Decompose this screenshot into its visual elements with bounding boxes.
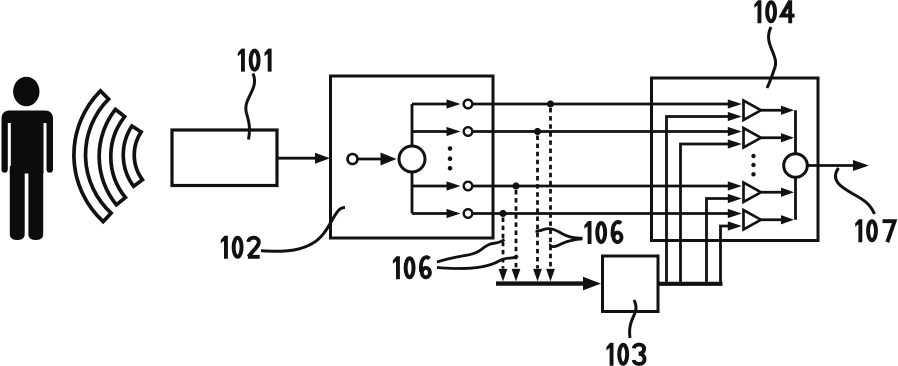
label 104	[754, 0, 794, 23]
splitter vertical bus	[411, 104, 414, 214]
combiner vertical bus	[794, 110, 797, 220]
amplifier triangle 2	[744, 128, 762, 147]
amplifier triangle 3	[744, 183, 762, 202]
label 103	[606, 343, 644, 366]
port circle ch1	[464, 100, 473, 109]
ellipsis dots in 102	[448, 146, 453, 170]
wire: output 107	[807, 164, 853, 167]
amplifier triangle 4	[744, 210, 762, 229]
input port circle	[348, 154, 358, 164]
sound wave arc 1 (outer)	[74, 91, 111, 222]
amp 2 output wire	[761, 136, 782, 139]
junction dot tap 4	[547, 100, 554, 107]
leader 104	[767, 27, 776, 88]
label 101	[238, 49, 272, 72]
box 103 (controller)	[603, 256, 659, 312]
ellipsis dots in 104	[751, 154, 755, 177]
dashed wire 106-4	[549, 108, 552, 269]
amplifier triangle 1	[744, 101, 762, 120]
dashed wire 106-3	[536, 136, 539, 269]
wire ch3 to box 104	[472, 185, 729, 188]
branch wire ch1	[412, 103, 447, 106]
wire ch1 to box 104	[472, 103, 729, 106]
wire ch2 to box 104	[472, 130, 729, 133]
leaders 106 right	[536, 229, 583, 239]
control wire to amp 3	[707, 199, 730, 284]
wire: 103 output bus	[658, 282, 723, 286]
label 106 (right)	[584, 221, 621, 244]
leader 107	[835, 168, 874, 214]
splitter circle	[399, 146, 425, 172]
person (speaker)	[2, 77, 54, 240]
dashed wire 106-1	[502, 218, 505, 269]
box 104 (combiner block)	[652, 78, 819, 241]
wire: port to splitter	[358, 158, 382, 161]
branch wire ch3	[412, 185, 447, 188]
junction dot tap 1	[499, 210, 506, 217]
leaders 106 left	[437, 240, 505, 263]
leader 102	[261, 208, 345, 252]
junction dot tap 3	[534, 128, 541, 135]
collector wire to 103	[496, 281, 585, 285]
wire ch4 to box 104	[472, 212, 729, 215]
control wire to amp 2	[681, 144, 730, 284]
port circle ch4	[464, 209, 473, 218]
junction dot tap 2	[512, 182, 519, 189]
amp 1 output wire	[761, 109, 782, 112]
port circle ch3	[464, 182, 473, 191]
branch wire ch4	[412, 212, 447, 215]
box 102 (splitter block)	[331, 76, 494, 238]
box 101 (microphone)	[172, 130, 277, 186]
label 107	[855, 219, 894, 242]
label 106 (left)	[393, 256, 430, 279]
amp 3 output wire	[761, 191, 782, 194]
branch wire ch2	[412, 130, 447, 133]
port circle ch2	[464, 127, 473, 136]
control wire to amp 1	[667, 117, 730, 284]
dashed wire 106-2	[515, 190, 518, 269]
control wire to amp 4	[721, 226, 730, 284]
wire: 101 output to box 102	[277, 157, 316, 160]
label 102	[221, 236, 260, 259]
leader 101	[246, 74, 255, 140]
leader 103	[630, 300, 636, 338]
sound wave arc 3 (inner)	[123, 126, 142, 186]
amp 4 output wire	[761, 218, 782, 221]
sound wave arc 2 (middle)	[99, 109, 125, 204]
combiner circle	[784, 154, 808, 178]
